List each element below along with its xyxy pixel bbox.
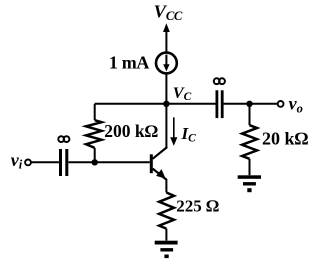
svg-text:1 mA: 1 mA [109, 53, 149, 73]
svg-text:200 kΩ: 200 kΩ [104, 121, 158, 141]
svg-text:225 Ω: 225 Ω [176, 196, 219, 215]
svg-text:20 kΩ: 20 kΩ [262, 129, 309, 149]
